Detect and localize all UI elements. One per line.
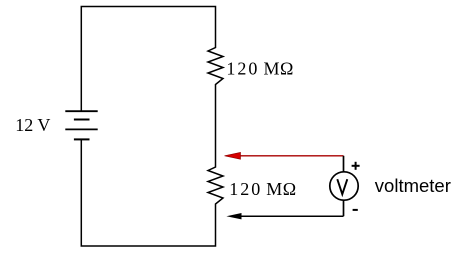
svg-text:120: 120 (229, 179, 262, 199)
svg-text:120: 120 (226, 58, 259, 78)
svg-text:voltmeter: voltmeter (375, 175, 451, 196)
svg-text:MΩ: MΩ (264, 58, 294, 78)
svg-text:MΩ: MΩ (266, 179, 296, 199)
svg-text:12 V: 12 V (15, 115, 50, 135)
